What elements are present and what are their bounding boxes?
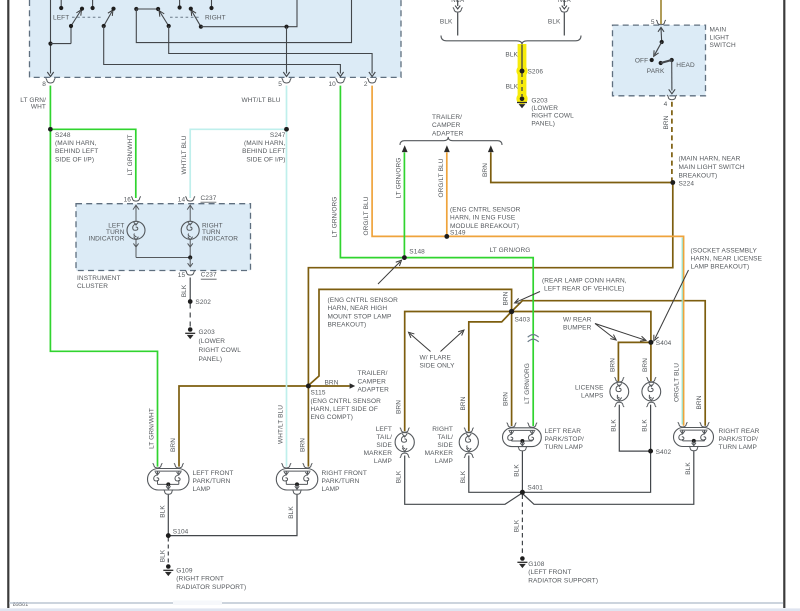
flare arrow right	[441, 331, 463, 351]
svg-text:C237: C237	[201, 271, 217, 278]
ground G108	[520, 556, 525, 561]
svg-text:SWITCH: SWITCH	[710, 42, 736, 49]
svg-text:BRN: BRN	[503, 392, 510, 406]
svg-text:5: 5	[278, 81, 282, 88]
bumper arrow left	[595, 324, 615, 339]
bottom scrollbar band	[0, 608, 800, 611]
svg-text:CAMPER: CAMPER	[358, 378, 387, 385]
svg-text:S403: S403	[515, 317, 531, 324]
svg-text:SIDE: SIDE	[437, 442, 453, 449]
wire LT GRN/ORG S148 to adapter arrow	[403, 152, 405, 257]
svg-text:TRAILER/: TRAILER/	[432, 114, 462, 121]
svg-text:(SOCKET ASSEMBLY: (SOCKET ASSEMBLY	[691, 248, 758, 255]
wire BRN S224 down-left to S115	[308, 183, 672, 386]
top contact pair	[134, 7, 138, 11]
left front park/turn lamp	[148, 469, 190, 491]
wire BLK right marker to S401	[469, 456, 520, 493]
pin 5 connector	[282, 78, 292, 83]
pin 2 connector	[367, 78, 377, 83]
svg-text:(MAIN HARN, NEAR: (MAIN HARN, NEAR	[679, 156, 741, 163]
wire BRN S403 diag to right rear lamp	[512, 301, 706, 426]
contact stub	[60, 0, 62, 8]
svg-text:4: 4	[664, 101, 668, 108]
svg-text:OFF: OFF	[635, 58, 648, 65]
splice S149	[445, 234, 450, 239]
right turn indicator lamp	[187, 205, 193, 209]
svg-text:BLK: BLK	[642, 419, 649, 432]
svg-text:CLUSTER: CLUSTER	[77, 283, 108, 290]
svg-text:BLK: BLK	[440, 19, 453, 26]
svg-text:HARN, NEAR HIGH: HARN, NEAR HIGH	[328, 305, 388, 312]
svg-text:BLK: BLK	[159, 549, 166, 562]
wire arm3 to pin 2	[169, 26, 372, 74]
wire BLK pin15 to S202	[189, 278, 191, 301]
pin 8 connector	[46, 78, 56, 83]
svg-text:BEHIND LEFT: BEHIND LEFT	[242, 148, 285, 155]
node in cluster	[188, 255, 192, 259]
svg-text:HARN, IN ENG FUSE: HARN, IN ENG FUSE	[450, 215, 516, 222]
splice S404	[649, 340, 654, 345]
bumper arrow right	[595, 324, 644, 340]
splice S247	[284, 127, 289, 132]
wire BLK left marker to S401	[405, 456, 523, 505]
svg-text:WHT/LT BLU: WHT/LT BLU	[278, 405, 285, 444]
brace joining BLK wires	[441, 36, 581, 45]
arrow to trailer camper adapter lower	[308, 385, 349, 387]
wire LT GRN/ORG S148 to left rear lamp	[404, 258, 533, 426]
splice S248	[48, 127, 53, 132]
wire BRN S115 to left front lamp	[179, 386, 308, 467]
svg-text:W/ REAR: W/ REAR	[563, 317, 592, 324]
svg-text:BRN: BRN	[170, 438, 177, 452]
svg-text:(ENG CNTRL SENSOR: (ENG CNTRL SENSOR	[450, 207, 521, 214]
svg-text:TRAILER/: TRAILER/	[358, 370, 388, 377]
right front park/turn lamp	[276, 469, 318, 491]
svg-text:G203: G203	[531, 97, 548, 104]
switch arm 3	[158, 9, 169, 26]
svg-text:BRN: BRN	[396, 400, 403, 414]
svg-text:5: 5	[651, 19, 655, 26]
svg-text:LAMPS: LAMPS	[581, 393, 604, 400]
svg-text:BLK: BLK	[685, 462, 692, 475]
wire BLK right front lamp to S104	[170, 495, 297, 536]
splice S402	[648, 449, 653, 454]
svg-text:PANEL): PANEL)	[199, 356, 223, 363]
wire BRN S404 to left license lamp	[618, 342, 651, 381]
svg-text:S224: S224	[679, 181, 695, 188]
svg-text:BLK: BLK	[288, 506, 295, 519]
svg-text:BLK: BLK	[610, 419, 617, 432]
svg-text:(RIGHT FRONT: (RIGHT FRONT	[176, 576, 224, 583]
svg-text:SIDE ONLY: SIDE ONLY	[420, 363, 456, 370]
svg-text:(ENG CNTRL SENSOR: (ENG CNTRL SENSOR	[311, 398, 382, 405]
svg-text:LICENSE: LICENSE	[575, 385, 604, 392]
wire contact to right riser	[136, 0, 351, 43]
svg-text:LAMP: LAMP	[322, 486, 340, 493]
svg-text:G203: G203	[199, 329, 216, 336]
turn signal switch box dashed border	[30, 0, 402, 77]
pin 16 connector	[131, 197, 141, 202]
wire WHT/LT BLU S247 to right front lamp	[286, 129, 288, 466]
svg-text:TURN LAMP: TURN LAMP	[719, 444, 757, 451]
wire BLK dashed S206 to G203	[521, 73, 523, 96]
svg-text:BUMPER: BUMPER	[563, 325, 592, 332]
svg-text:LAMP BREAKOUT): LAMP BREAKOUT)	[691, 264, 750, 271]
wire BRN dashed pin4 to S224	[671, 102, 673, 181]
svg-text:BREAKOUT): BREAKOUT)	[328, 322, 367, 329]
svg-text:WHT: WHT	[31, 104, 46, 111]
svg-text:(REAR LAMP CONN HARN,: (REAR LAMP CONN HARN,	[542, 278, 627, 285]
svg-text:LT GRN/ORG: LT GRN/ORG	[331, 197, 338, 238]
wire ORG/LT BLU pin2 to S149 corner	[372, 86, 447, 237]
ground G203 upper	[520, 96, 525, 101]
svg-text:10: 10	[328, 81, 336, 88]
switch arm OFF-PARK-HEAD	[658, 27, 664, 31]
wire LT GRN/WHT S248 to left front lamp	[50, 129, 157, 466]
svg-text:BLK: BLK	[159, 505, 166, 518]
svg-text:BLK: BLK	[460, 470, 467, 483]
svg-text:ORG/LT BLU: ORG/LT BLU	[363, 196, 370, 235]
svg-text:(MAIN HARN,: (MAIN HARN,	[244, 140, 286, 147]
splice S202	[188, 299, 193, 304]
wire WHT/LT BLU pin5 to S247	[286, 86, 288, 130]
wire BLK left license to S402	[619, 405, 648, 451]
svg-text:BLK: BLK	[506, 83, 519, 90]
wire BRN S403 to S404	[512, 312, 651, 343]
svg-text:S404: S404	[656, 340, 672, 347]
splice S115	[306, 384, 311, 389]
wire BLK right rear lamp to S401	[522, 451, 693, 504]
svg-text:HARN, NEAR LICENSE: HARN, NEAR LICENSE	[691, 256, 763, 263]
right page border	[783, 0, 785, 608]
svg-text:LT GRN/WHT: LT GRN/WHT	[149, 408, 156, 449]
wire LT GRN/ORG pin10 to S148	[340, 86, 404, 258]
license lamp left	[610, 382, 629, 401]
svg-text:RIGHT: RIGHT	[205, 15, 226, 22]
svg-text:RADIATOR SUPPORT): RADIATOR SUPPORT)	[176, 584, 246, 591]
svg-text:MAIN LIGHT SWITCH: MAIN LIGHT SWITCH	[679, 164, 745, 171]
wire arm2 to pin 10	[104, 26, 341, 74]
svg-text:SIDE OF I/P): SIDE OF I/P)	[55, 156, 94, 163]
svg-text:ADAPTER: ADAPTER	[432, 130, 464, 137]
main light switch box	[613, 25, 706, 96]
svg-text:RIGHT COWL: RIGHT COWL	[531, 113, 574, 120]
splice dots overlay	[48, 127, 53, 132]
svg-text:LT GRN/WHT: LT GRN/WHT	[127, 135, 134, 176]
flare arrow left	[410, 334, 431, 352]
right rear park/stop/turn lamp	[674, 428, 714, 447]
svg-text:(LOWER: (LOWER	[531, 105, 558, 112]
splice S224	[671, 180, 676, 185]
svg-text:BLK: BLK	[181, 284, 188, 297]
svg-text:ADAPTER: ADAPTER	[358, 387, 390, 394]
svg-text:16: 16	[124, 196, 132, 203]
svg-text:BREAKOUT): BREAKOUT)	[679, 172, 718, 179]
svg-text:SIDE: SIDE	[376, 442, 392, 449]
ground G203 lower	[188, 327, 193, 332]
svg-text:(MAIN HARN,: (MAIN HARN,	[55, 140, 97, 147]
pin 5 connector main light switch	[656, 20, 666, 25]
svg-text:8: 8	[42, 81, 46, 88]
svg-text:CAMPER: CAMPER	[432, 122, 461, 129]
svg-text:BRN: BRN	[642, 358, 649, 372]
svg-text:LAMP: LAMP	[435, 458, 453, 465]
svg-text:2: 2	[364, 81, 368, 88]
wire feed to pin 5 of main light switch	[660, 0, 662, 24]
wire BLK S402 to S401	[525, 451, 651, 492]
wire BRN S115 to right front lamp	[307, 386, 309, 467]
svg-text:LT GRN/ORG: LT GRN/ORG	[395, 158, 402, 199]
gang dashed line right	[170, 16, 200, 18]
wire ORG/LT BLU S149 to adapter arrow	[446, 152, 448, 236]
svg-text:INDICATOR: INDICATOR	[202, 236, 238, 243]
svg-text:BRN: BRN	[696, 395, 703, 409]
yellow highlight on BLK ground wire	[518, 44, 527, 101]
right tail/side marker lamp	[459, 433, 478, 452]
svg-text:C237: C237	[201, 195, 217, 202]
adapter arrow ORG/LT BLU	[444, 145, 450, 152]
svg-text:PARK: PARK	[647, 68, 665, 75]
svg-text:TURN LAMP: TURN LAMP	[545, 444, 583, 451]
turn signal switch box fill	[30, 0, 402, 77]
svg-text:ENG COMPT): ENG COMPT)	[311, 414, 354, 421]
wire ORG/LT BLU S149 to right rear lamp	[447, 236, 684, 425]
svg-text:LEFT FRONT: LEFT FRONT	[193, 470, 234, 477]
svg-text:15: 15	[178, 272, 186, 279]
svg-text:(LEFT FRONT: (LEFT FRONT	[528, 569, 571, 576]
svg-text:LEFT: LEFT	[376, 426, 392, 433]
svg-text:LEFT: LEFT	[53, 15, 69, 22]
left page border	[7, 0, 9, 608]
svg-text:RIGHT: RIGHT	[432, 426, 453, 433]
wire LT GRN/WHT pin8 to S248	[49, 86, 51, 130]
left rear park/stop/turn lamp	[503, 428, 542, 447]
wire BRN S115 up to S403	[310, 289, 512, 384]
svg-text:S202: S202	[195, 299, 211, 306]
contact stub	[211, 0, 213, 8]
gang dashed line left	[72, 16, 103, 18]
svg-text:INDICATOR: INDICATOR	[88, 236, 124, 243]
splice S403	[509, 309, 514, 314]
wire BLK dashed S401 to G108	[521, 495, 523, 556]
svg-text:BRN: BRN	[503, 291, 510, 305]
svg-text:BEHIND LEFT: BEHIND LEFT	[55, 148, 98, 155]
svg-text:MOUNT STOP LAMP: MOUNT STOP LAMP	[328, 313, 392, 320]
ground G109	[166, 564, 171, 569]
svg-text:BRN: BRN	[663, 115, 670, 129]
switch arm 2	[104, 12, 112, 27]
svg-text:S401: S401	[527, 484, 543, 491]
svg-text:S248: S248	[55, 132, 71, 139]
crossover hop on LT GRN/ORG	[528, 335, 539, 342]
wire BRN S404 to right license lamp	[650, 342, 652, 381]
stripe LT BLU of ORG/LT BLU	[681, 238, 683, 425]
switch wire to pin 8	[50, 0, 52, 74]
svg-text:INSTRUMENT: INSTRUMENT	[77, 275, 121, 282]
svg-text:S115: S115	[311, 390, 326, 397]
pin 4 connector main light switch	[667, 95, 677, 100]
contact stub	[179, 0, 181, 8]
svg-text:PANEL): PANEL)	[531, 120, 555, 127]
pin 15 connector	[185, 271, 195, 276]
svg-text:RIGHT COWL: RIGHT COWL	[199, 347, 242, 354]
pin 10 connector	[336, 78, 346, 83]
svg-text:RADIATOR SUPPORT): RADIATOR SUPPORT)	[528, 577, 598, 584]
svg-text:RIGHT REAR: RIGHT REAR	[719, 428, 760, 435]
svg-text:14: 14	[178, 196, 186, 203]
svg-text:ORG/LT BLU: ORG/LT BLU	[438, 158, 445, 197]
arrow to S148	[378, 262, 400, 284]
arrow to S403	[516, 292, 540, 303]
indicator common wire	[135, 239, 137, 257]
splice S148	[402, 255, 407, 260]
switch arm LEFT	[51, 43, 72, 45]
svg-text:PARK/STOP/: PARK/STOP/	[545, 436, 585, 443]
left tail/side marker lamp	[395, 433, 414, 452]
svg-text:S247: S247	[270, 132, 286, 139]
svg-text:LIGHT: LIGHT	[710, 34, 730, 41]
svg-text:LT GRN/ORG: LT GRN/ORG	[524, 363, 531, 404]
svg-text:WHT/LT BLU: WHT/LT BLU	[181, 135, 188, 174]
wire BLK left rear lamp to S401	[521, 451, 523, 491]
svg-text:SIDE OF I/P): SIDE OF I/P)	[246, 156, 285, 163]
adapter arrow BRN	[488, 145, 494, 152]
wire BRN adapter arrow to S224	[491, 152, 672, 182]
svg-text:BLK: BLK	[548, 19, 561, 26]
wire BRN S403 to left tail marker lamp	[405, 312, 512, 432]
svg-text:BLK: BLK	[513, 519, 520, 532]
svg-text:MARKER: MARKER	[425, 450, 454, 457]
svg-text:(ENG CNTRL SENSOR: (ENG CNTRL SENSOR	[328, 297, 399, 304]
left turn indicator lamp	[133, 205, 139, 209]
instrument cluster box	[76, 204, 251, 271]
svg-text:RIGHT FRONT: RIGHT FRONT	[322, 470, 367, 477]
svg-text:LEFT REAR: LEFT REAR	[545, 428, 582, 435]
wire BLK dashed S202 to G203	[189, 304, 191, 328]
splice S401	[520, 490, 525, 495]
svg-text:ORG/LT BLU: ORG/LT BLU	[673, 363, 680, 402]
pin 14 connector	[185, 197, 195, 202]
svg-text:LEFT REAR OF VEHICLE): LEFT REAR OF VEHICLE)	[544, 286, 624, 293]
svg-text:TAIL/: TAIL/	[437, 434, 453, 441]
svg-text:BRN: BRN	[324, 379, 338, 386]
svg-text:S148: S148	[409, 249, 425, 256]
wire LT GRN/WHT S248 branch to cluster pin16	[50, 129, 135, 198]
svg-text:PARK/TURN: PARK/TURN	[193, 478, 231, 485]
node on pin8 wire	[48, 42, 52, 46]
svg-text:S104: S104	[173, 528, 189, 535]
svg-text:(LOWER: (LOWER	[199, 338, 226, 345]
svg-text:PARK/STOP/: PARK/STOP/	[719, 436, 759, 443]
svg-text:BRN: BRN	[482, 163, 489, 177]
svg-text:TAIL/: TAIL/	[376, 434, 392, 441]
wire BLK left front lamp to S104	[167, 495, 169, 535]
splice S206	[520, 69, 525, 74]
adapter arrow LT GRN/ORG	[402, 145, 408, 152]
svg-text:LT GRN/ORG: LT GRN/ORG	[490, 247, 531, 254]
svg-text:MARKER: MARKER	[364, 450, 393, 457]
svg-text:S206: S206	[528, 69, 544, 76]
trailer camper adapter brace	[400, 137, 502, 145]
svg-text:G108: G108	[528, 561, 545, 568]
wire WHT/LT BLU branch to cluster pin14	[190, 129, 286, 198]
arrow to S404	[655, 270, 689, 339]
splice S104	[166, 533, 171, 538]
svg-text:BRN: BRN	[609, 358, 616, 372]
wire BLK right license to S402	[650, 405, 652, 450]
svg-text:G109: G109	[176, 568, 193, 575]
svg-text:W/ FLARE: W/ FLARE	[420, 355, 452, 362]
svg-text:WHT/LT BLU: WHT/LT BLU	[241, 97, 280, 104]
svg-text:PARK/TURN: PARK/TURN	[322, 478, 360, 485]
svg-text:S402: S402	[656, 449, 672, 456]
wire BRN S403 down to left rear lamp	[511, 312, 513, 427]
svg-text:HARN, LEFT SIDE OF: HARN, LEFT SIDE OF	[311, 406, 378, 413]
svg-text:LAMP: LAMP	[193, 486, 211, 493]
svg-text:LAMP: LAMP	[374, 458, 392, 465]
contact stub	[92, 0, 94, 8]
svg-text:MAIN: MAIN	[710, 26, 727, 33]
svg-text:BRN: BRN	[460, 396, 467, 410]
wire BLK to S206	[521, 45, 523, 71]
switch arm 4	[192, 12, 201, 27]
svg-text:BLK: BLK	[513, 464, 520, 477]
license lamp right	[642, 382, 661, 401]
svg-text:BLK: BLK	[396, 470, 403, 483]
svg-text:HEAD: HEAD	[676, 62, 695, 69]
wire arm4 to pin 5	[201, 0, 297, 27]
wire BRN S403 diag to right tail marker lamp	[469, 312, 512, 432]
svg-text:BRN: BRN	[299, 438, 306, 452]
wire BLK dashed S104 to G109	[167, 538, 169, 565]
svg-text:BLK: BLK	[505, 52, 518, 59]
